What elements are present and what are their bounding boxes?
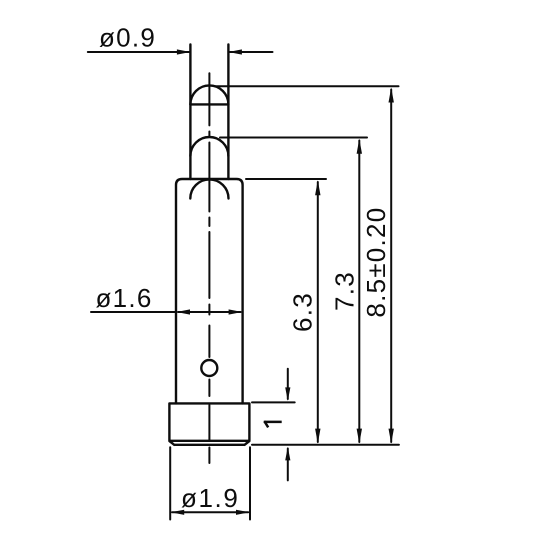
- svg-text:7.3: 7.3: [329, 271, 359, 311]
- dimension 6.3 arrows: [315, 180, 320, 443]
- dimension ø1.6 leader: [91, 311, 241, 313]
- svg-text:ø1.9: ø1.9: [181, 483, 239, 513]
- plunger left edge: [189, 45, 191, 180]
- plunger tip chord: [190, 103, 228, 105]
- dimension ø1.9 extension lines: [170, 447, 250, 519]
- dimension 1 arrows: [285, 387, 290, 460]
- dimension 8.5 arrows: [389, 88, 394, 444]
- label 1: [264, 421, 282, 427]
- plunger tip dome: [190, 85, 228, 104]
- bottom shared extension line: [252, 444, 399, 446]
- dimension ø0.9 arrows: [177, 49, 242, 54]
- plunger right edge: [227, 45, 229, 180]
- dimension ø1.6 line: [178, 311, 241, 313]
- svg-text:6.3: 6.3: [288, 292, 318, 332]
- dimension ø0.9 right tail: [230, 51, 273, 53]
- dimension 8.5 extension line: [215, 86, 399, 442]
- svg-text:8.5±0.20: 8.5±0.20: [361, 207, 391, 318]
- svg-text:ø0.9: ø0.9: [99, 23, 156, 53]
- dimension 8.5 line: [390, 90, 392, 443]
- dimension 6.3 line: [317, 182, 319, 442]
- flange outline: [169, 403, 249, 444]
- svg-text:ø1.6: ø1.6: [96, 283, 153, 313]
- dimension ø1.9 line: [172, 511, 248, 513]
- plunger collar dome: [190, 137, 228, 156]
- dimension 6.3 extension line: [246, 179, 326, 442]
- dimension 7.3 extension line: [220, 138, 367, 443]
- dimension 7.3 arrows: [357, 139, 362, 444]
- dimension 1 lower segment: [287, 449, 289, 481]
- dimension 1 upper segment: [252, 369, 399, 481]
- dimension 7.3 line: [358, 141, 360, 443]
- dimension ø1.9 arrows: [171, 510, 250, 515]
- barrel outline: [176, 179, 243, 403]
- dimension ø1.6 arrows: [177, 309, 243, 314]
- flange top extension line: [252, 401, 295, 403]
- dimension ø0.9 leader left: [88, 51, 273, 53]
- barrel inner dome: [190, 179, 228, 198]
- barrel hole: [201, 360, 217, 376]
- centerline: [208, 73, 210, 463]
